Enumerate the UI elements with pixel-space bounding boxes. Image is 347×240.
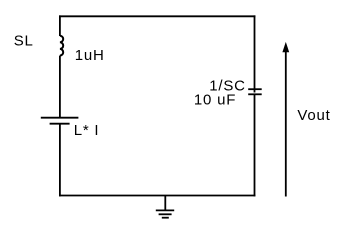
capacitor C (10 uF): bottom plate	[248, 93, 262, 95]
wire: left edge lower segment (source down to bottom-left corner)	[59, 124, 61, 197]
ground: bottom bar	[162, 217, 169, 219]
Vout arrow: head	[282, 42, 289, 52]
wire: right edge upper segment (top-right corner down to capacitor)	[254, 15, 256, 92]
svg-text:Vout: Vout	[297, 107, 330, 124]
wire: left edge between inductor and source	[59, 56, 61, 118]
capacitor C (10 uF): top plate	[248, 88, 262, 90]
svg-text:1uH: 1uH	[75, 47, 105, 64]
wire: bottom edge from bottom-left corner to bottom-right corner	[59, 195, 255, 197]
svg-text:L* I: L* I	[74, 122, 100, 139]
ground: middle bar	[159, 213, 172, 215]
inductor L (1uH) on left edge	[60, 36, 63, 56]
svg-text:10 uF: 10 uF	[194, 92, 236, 109]
ground: top bar	[156, 209, 174, 211]
wire: left edge upper segment (top-left corner down to inductor)	[59, 15, 61, 36]
voltage source V1 (battery symbol): long plate	[41, 117, 79, 119]
Vout arrow: shaft	[285, 51, 287, 197]
wire: right edge lower segment (capacitor down to bottom-right corner)	[254, 94, 256, 196]
svg-text:SL: SL	[14, 33, 34, 50]
ground: stem wire	[164, 196, 166, 211]
voltage source V1 (battery symbol): short plate	[50, 123, 70, 125]
wire: top edge from top-left corner to top-right corner	[59, 15, 255, 17]
